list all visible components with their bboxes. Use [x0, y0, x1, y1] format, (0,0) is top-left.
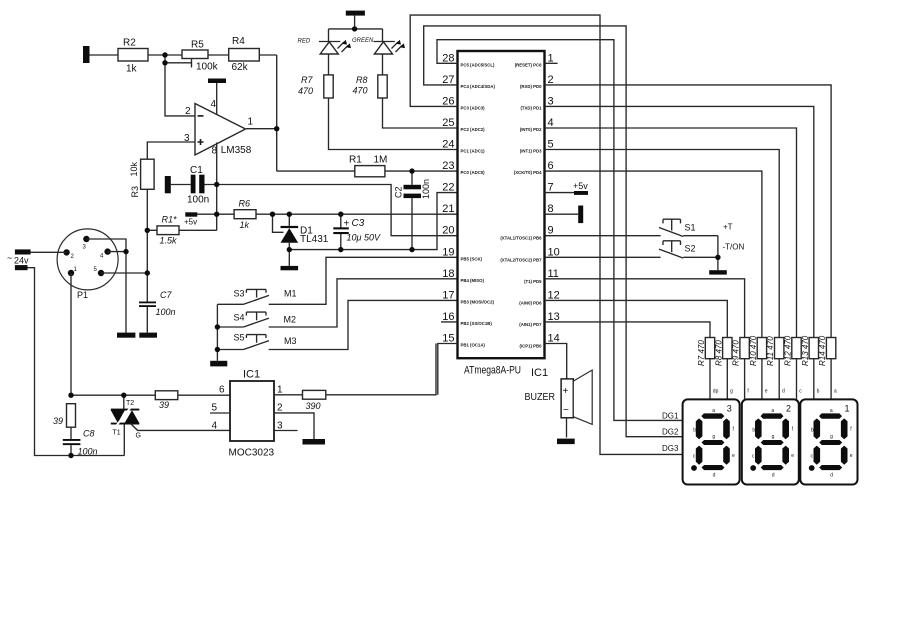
svg-text:1k: 1k	[240, 220, 250, 230]
svg-text:17: 17	[442, 289, 454, 301]
svg-text:S5: S5	[234, 333, 245, 343]
svg-text:+5v: +5v	[573, 181, 588, 191]
svg-text:1: 1	[845, 403, 850, 413]
svg-text:3: 3	[277, 421, 283, 432]
svg-text:S1: S1	[685, 223, 696, 233]
svg-text:1: 1	[548, 52, 554, 64]
svg-text:+: +	[344, 219, 350, 230]
svg-text:PB3 (MOSI/OC2): PB3 (MOSI/OC2)	[461, 299, 495, 304]
svg-text:R11 470: R11 470	[766, 336, 775, 366]
svg-text:R9 470: R9 470	[732, 340, 741, 366]
svg-text:PC1 (ADC1): PC1 (ADC1)	[461, 149, 486, 154]
svg-text:39: 39	[159, 400, 169, 410]
svg-text:e: e	[765, 388, 768, 394]
svg-text:3: 3	[548, 95, 554, 107]
svg-text:e: e	[732, 453, 735, 459]
svg-text:~: ~	[7, 253, 12, 263]
svg-text:6: 6	[219, 385, 225, 396]
svg-text:2: 2	[185, 106, 191, 117]
svg-text:23: 23	[442, 160, 454, 172]
svg-text:dp: dp	[713, 388, 719, 394]
svg-text:R7: R7	[301, 75, 313, 85]
svg-text:R4: R4	[232, 36, 245, 47]
svg-text:RED: RED	[298, 39, 311, 45]
svg-text:2: 2	[548, 74, 554, 86]
svg-text:T1: T1	[113, 430, 121, 437]
svg-text:16: 16	[442, 311, 454, 323]
svg-text:R6: R6	[239, 199, 251, 209]
svg-text:4: 4	[212, 421, 218, 432]
svg-text:DG1: DG1	[662, 412, 679, 421]
svg-text:20: 20	[442, 225, 454, 237]
svg-text:BUZER: BUZER	[525, 392, 556, 403]
svg-text:39: 39	[53, 416, 63, 426]
svg-text:R1: R1	[349, 155, 362, 166]
svg-text:PC4 (ADC4/SDA): PC4 (ADC4/SDA)	[461, 84, 496, 89]
svg-text:R8 470: R8 470	[714, 340, 723, 366]
svg-text:14: 14	[548, 333, 560, 345]
svg-text:13: 13	[548, 311, 560, 323]
svg-text:S4: S4	[234, 313, 245, 323]
svg-text:(T1) PD5: (T1) PD5	[524, 279, 542, 284]
svg-text:390: 390	[306, 401, 321, 411]
svg-text:10μ 50V: 10μ 50V	[347, 233, 381, 243]
svg-text:62k: 62k	[232, 62, 249, 73]
svg-text:G: G	[136, 433, 141, 440]
svg-text:5: 5	[548, 139, 554, 151]
svg-text:PB4 (MISO): PB4 (MISO)	[461, 278, 485, 283]
svg-text:26: 26	[442, 95, 454, 107]
svg-text:24v: 24v	[14, 256, 29, 266]
svg-text:PC0 (ADC0): PC0 (ADC0)	[461, 170, 486, 175]
svg-text:DG2: DG2	[662, 428, 679, 437]
svg-text:470: 470	[298, 86, 313, 96]
svg-text:PC5 (ADC5/SCL): PC5 (ADC5/SCL)	[461, 62, 495, 67]
svg-text:4: 4	[548, 117, 554, 129]
svg-text:PB1 (OC1A): PB1 (OC1A)	[461, 343, 486, 348]
svg-text:(TXD) PD1: (TXD) PD1	[520, 105, 542, 110]
svg-text:1.5k: 1.5k	[160, 236, 178, 246]
svg-text:DG3: DG3	[662, 444, 679, 453]
svg-text:M2: M2	[284, 315, 297, 325]
svg-text:100n: 100n	[421, 179, 431, 199]
svg-text:2: 2	[277, 403, 283, 414]
svg-text:(ICP1) PB0: (ICP1) PB0	[520, 344, 543, 349]
svg-text:M3: M3	[284, 336, 297, 346]
svg-text:−: −	[563, 405, 569, 416]
svg-text:15: 15	[442, 333, 454, 345]
svg-text:(RESET) PC6: (RESET) PC6	[515, 62, 542, 67]
svg-text:9: 9	[548, 225, 554, 237]
svg-text:(RXD) PD0: (RXD) PD0	[520, 84, 542, 89]
svg-text:b: b	[817, 388, 820, 394]
svg-text:(XCK/T0) PD4: (XCK/T0) PD4	[514, 170, 542, 175]
svg-text:a: a	[712, 408, 715, 414]
svg-text:C8: C8	[83, 429, 95, 439]
svg-text:S3: S3	[234, 289, 245, 299]
svg-text:1: 1	[248, 117, 254, 128]
svg-text:LM358: LM358	[221, 145, 252, 156]
svg-text:IC1: IC1	[531, 367, 548, 379]
svg-text:T2: T2	[126, 400, 134, 407]
svg-text:+5v: +5v	[184, 218, 197, 227]
svg-text:12: 12	[548, 289, 560, 301]
svg-text:100n: 100n	[78, 447, 98, 457]
svg-text:C7: C7	[160, 290, 172, 300]
svg-text:R12 470: R12 470	[784, 335, 793, 366]
svg-text:GREEN: GREEN	[352, 38, 374, 44]
svg-text:P1: P1	[77, 290, 88, 300]
svg-text:24: 24	[442, 139, 454, 151]
svg-text:PB5 (SCK): PB5 (SCK)	[461, 256, 483, 261]
svg-text:(XTAL2/TOSC2) PB7: (XTAL2/TOSC2) PB7	[500, 257, 542, 262]
svg-text:3: 3	[727, 403, 732, 413]
svg-text:ATmega8A-PU: ATmega8A-PU	[464, 365, 521, 377]
svg-text:a: a	[834, 388, 837, 394]
svg-text:C1: C1	[190, 165, 203, 176]
svg-text:1M: 1M	[374, 155, 388, 166]
svg-text:470: 470	[353, 86, 368, 96]
svg-text:(INT1) PD3: (INT1) PD3	[520, 149, 542, 154]
svg-text:R5: R5	[191, 40, 204, 51]
svg-text:g: g	[730, 388, 733, 394]
svg-text:R2: R2	[123, 38, 136, 49]
svg-text:PC3 (ADC3): PC3 (ADC3)	[461, 105, 486, 110]
svg-text:-T/ON: -T/ON	[723, 243, 745, 252]
svg-text:25: 25	[442, 117, 454, 129]
svg-text:100n: 100n	[187, 195, 209, 206]
svg-text:100n: 100n	[156, 307, 176, 317]
svg-text:2: 2	[786, 403, 791, 413]
svg-text:b: b	[693, 427, 696, 433]
svg-text:d: d	[713, 472, 716, 478]
svg-text:R13 470: R13 470	[801, 335, 810, 366]
svg-text:18: 18	[442, 268, 454, 280]
svg-text:M1: M1	[284, 289, 297, 299]
svg-text:R14 470: R14 470	[818, 335, 827, 366]
svg-text:6: 6	[548, 160, 554, 172]
svg-text:1: 1	[277, 385, 283, 396]
svg-text:(AIN0) PD6: (AIN0) PD6	[519, 300, 542, 305]
svg-text:R8: R8	[356, 75, 368, 85]
svg-text:11: 11	[548, 268, 559, 280]
svg-text:28: 28	[442, 52, 454, 64]
svg-text:PC2 (ADC2): PC2 (ADC2)	[461, 127, 486, 132]
svg-text:R3: R3	[130, 186, 140, 198]
svg-text:S2: S2	[685, 244, 696, 254]
svg-text:27: 27	[442, 74, 454, 86]
svg-text:R7 470: R7 470	[697, 340, 706, 366]
svg-text:C3: C3	[352, 218, 365, 229]
svg-text:TL431: TL431	[300, 234, 329, 245]
svg-text:100k: 100k	[196, 62, 219, 73]
svg-text:g: g	[712, 434, 715, 440]
svg-text:5: 5	[212, 403, 218, 414]
svg-text:PB2 (SS/OC1B): PB2 (SS/OC1B)	[461, 321, 493, 326]
svg-text:1k: 1k	[126, 63, 138, 74]
svg-text:IC1: IC1	[243, 369, 260, 381]
svg-text:(AIN1) PD7: (AIN1) PD7	[519, 322, 542, 327]
svg-text:MOC3023: MOC3023	[229, 448, 275, 459]
svg-text:+: +	[563, 386, 569, 397]
svg-text:21: 21	[442, 203, 454, 215]
svg-text:(INT0) PD2: (INT0) PD2	[520, 127, 542, 132]
svg-text:22: 22	[442, 182, 454, 194]
svg-text:10k: 10k	[129, 161, 139, 176]
svg-text:C2: C2	[394, 186, 404, 198]
svg-text:4: 4	[211, 99, 217, 110]
svg-text:R10 470: R10 470	[749, 335, 758, 366]
svg-text:19: 19	[442, 246, 454, 258]
svg-text:7: 7	[548, 182, 554, 194]
svg-text:d: d	[782, 388, 785, 394]
svg-text:(XTAL1/TOSC1) PB6: (XTAL1/TOSC1) PB6	[500, 236, 542, 241]
svg-text:+T: +T	[723, 223, 733, 232]
svg-text:R1*: R1*	[162, 215, 178, 225]
svg-text:10: 10	[548, 246, 560, 258]
svg-text:8: 8	[548, 203, 554, 215]
